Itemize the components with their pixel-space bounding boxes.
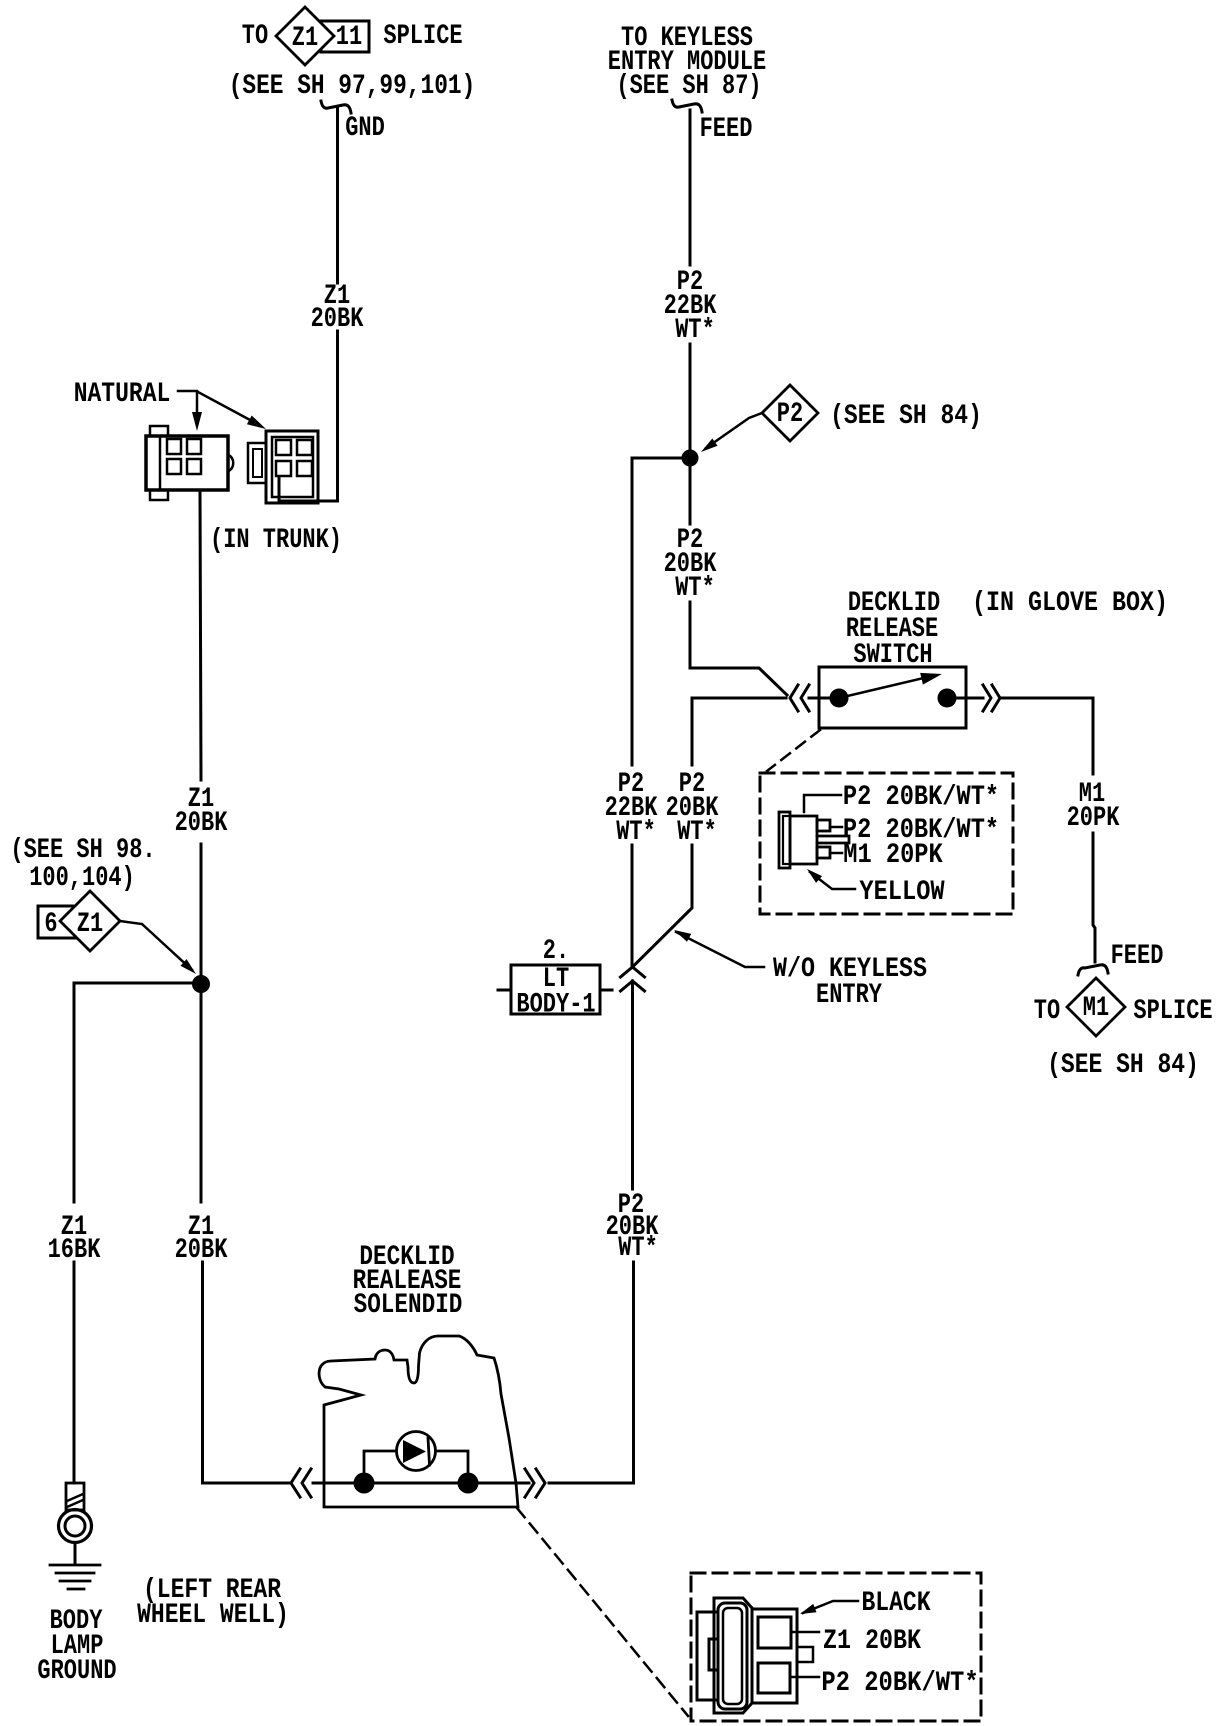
label DECKLID REALEASE SOLENDID bbox=[353, 1240, 463, 1320]
svg-text:NATURAL: NATURAL bbox=[74, 377, 171, 409]
splice ref diamond Z1 bbox=[276, 7, 334, 65]
label M1 20PK pin3 bbox=[843, 838, 943, 870]
solenoid terminal dots bbox=[354, 1473, 479, 1494]
svg-text:6: 6 bbox=[44, 907, 57, 939]
label 11 bbox=[336, 20, 362, 52]
label P2 20BK WT* right col bbox=[666, 767, 719, 847]
svg-text:GROUND: GROUND bbox=[37, 1654, 116, 1686]
connector << solenoid bbox=[291, 1469, 311, 1497]
connector trunk female bbox=[248, 431, 318, 503]
svg-text:WHEEL WELL): WHEEL WELL) bbox=[137, 1598, 289, 1630]
svg-text:P2: P2 bbox=[777, 397, 803, 429]
svg-text:ENTRY: ENTRY bbox=[816, 978, 882, 1010]
svg-text:BODY-1: BODY-1 bbox=[516, 988, 595, 1020]
svg-text:SPLICE: SPLICE bbox=[1133, 994, 1212, 1026]
clip mark M1 feed bbox=[1078, 965, 1108, 975]
svg-text:Z1 20BK: Z1 20BK bbox=[823, 1624, 921, 1656]
label SPLICE (M1) bbox=[1133, 994, 1212, 1026]
component box LT BODY-1 bbox=[498, 965, 612, 1014]
splice ref box 6 bbox=[38, 906, 79, 938]
splice ref diamond Z1 left bbox=[60, 891, 120, 951]
label Z1 20BK lower bbox=[175, 1210, 228, 1265]
label P2 20BK WT* solenoid feed bbox=[606, 1188, 659, 1263]
pin leader 1 bbox=[804, 795, 841, 812]
note TO KEYLESS ENTRY MODULE bbox=[608, 21, 766, 101]
connector >> solenoid bbox=[525, 1469, 545, 1497]
svg-text:20BK: 20BK bbox=[175, 806, 228, 838]
svg-text:100,104): 100,104) bbox=[29, 861, 135, 893]
svg-text:(IN GLOVE BOX): (IN GLOVE BOX) bbox=[972, 586, 1168, 618]
node P2 junction bbox=[682, 450, 699, 467]
ground symbol bbox=[50, 1565, 100, 1589]
svg-text:16BK: 16BK bbox=[48, 1233, 101, 1265]
label 6 bbox=[44, 907, 57, 939]
connector trunk male bbox=[146, 426, 233, 500]
wire Z1 20BK solenoid bbox=[201, 992, 291, 1483]
splice ref box 11 bbox=[321, 21, 369, 52]
label Z1 20BK trunk bbox=[175, 782, 228, 838]
splice ref Z1 leader bbox=[120, 921, 196, 974]
label Z1 (diamond) bbox=[292, 21, 318, 53]
label Z1 20BK gnd wire bbox=[311, 279, 364, 334]
wire switch return bbox=[633, 698, 787, 967]
label P2 20BK WT* switch feed bbox=[664, 523, 717, 603]
svg-text:(SEE SH 97,99,101): (SEE SH 97,99,101) bbox=[229, 69, 476, 101]
switch contact left bbox=[830, 689, 849, 708]
label Z1 (left diamond) bbox=[77, 907, 103, 939]
connector << switch bbox=[790, 685, 809, 711]
label SPLICE bbox=[383, 19, 462, 51]
wire through solenoid bbox=[313, 1482, 529, 1485]
label P2 20BK/WT* pin2 bbox=[843, 813, 999, 845]
svg-text:WT*: WT* bbox=[675, 571, 715, 603]
callout W/O KEYLESS ENTRY bbox=[674, 930, 927, 1011]
svg-text:SOLENDID: SOLENDID bbox=[354, 1288, 463, 1320]
switch connector drawing bbox=[779, 812, 849, 868]
label TO (M1) bbox=[1034, 994, 1060, 1026]
svg-text:GND: GND bbox=[345, 111, 385, 143]
callout YELLOW bbox=[807, 869, 945, 908]
svg-text:SPLICE: SPLICE bbox=[383, 19, 462, 51]
svg-text:WT*: WT* bbox=[675, 313, 715, 345]
diode bypass wire bbox=[364, 1451, 468, 1483]
solenoid outline bbox=[319, 1336, 518, 1507]
connector >> switch bbox=[983, 685, 1000, 711]
switch contact right bbox=[938, 689, 957, 708]
label NATURAL bbox=[74, 377, 171, 409]
natural leader left bbox=[178, 391, 202, 431]
solenoid connector drawing bbox=[697, 1598, 813, 1713]
label GND bbox=[345, 111, 385, 143]
svg-text:FEED: FEED bbox=[700, 112, 753, 144]
detail box switch connector bbox=[760, 773, 1013, 914]
svg-text:20PK: 20PK bbox=[1067, 801, 1120, 833]
wire Z1 20BK gnd bbox=[279, 108, 338, 501]
svg-text:WT*: WT* bbox=[618, 1231, 658, 1263]
svg-text:P2 20BK/WT*: P2 20BK/WT* bbox=[821, 1666, 978, 1698]
svg-text:YELLOW: YELLOW bbox=[859, 875, 944, 907]
wire P2 20BK solenoid feed bbox=[549, 981, 634, 1483]
note IN TRUNK bbox=[210, 523, 342, 555]
svg-text:TO: TO bbox=[242, 19, 268, 51]
wire P2 20BK switch feed bbox=[690, 466, 787, 695]
note IN GLOVE BOX bbox=[972, 586, 1168, 618]
wire P2 22BK feed bbox=[689, 110, 692, 450]
svg-text:FEED: FEED bbox=[1111, 939, 1164, 971]
natural leader right bbox=[198, 392, 266, 429]
dashed leader to switch detail bbox=[767, 730, 820, 771]
wire Z1 20BK trunk bbox=[200, 491, 201, 975]
svg-text:20BK: 20BK bbox=[175, 1233, 228, 1265]
svg-text:Z1: Z1 bbox=[292, 21, 318, 53]
splice ref P2 diamond bbox=[762, 385, 818, 441]
label P2 (diamond) bbox=[777, 397, 803, 429]
pin leader 3 bbox=[830, 852, 842, 855]
wire Z1 16BK bbox=[74, 983, 201, 1483]
pin leader 2 bbox=[830, 826, 842, 829]
inline connector break bbox=[621, 967, 645, 991]
note SEE SH 97,99,101 bbox=[229, 69, 476, 101]
label Z1 16BK bbox=[48, 1210, 101, 1265]
label M1 (diamond) bbox=[1083, 991, 1109, 1023]
label BODY LAMP GROUND bbox=[37, 1604, 116, 1686]
label P2 20BK/WT* pin1 bbox=[843, 780, 999, 812]
wire P2 22BK branch bbox=[632, 458, 682, 966]
svg-text:(SEE SH 84): (SEE SH 84) bbox=[830, 399, 982, 431]
svg-text:11: 11 bbox=[336, 20, 362, 52]
detail box solenoid connector bbox=[691, 1573, 981, 1721]
label TO bbox=[242, 19, 268, 51]
label P2 22BK WT* left col bbox=[605, 767, 658, 847]
label LT BODY-1 bbox=[516, 962, 595, 1020]
callout BLACK bbox=[800, 1586, 931, 1618]
label M1 20PK bbox=[1067, 777, 1120, 833]
clip mark gnd wire bbox=[321, 101, 351, 113]
svg-text:TO: TO bbox=[1034, 994, 1060, 1026]
svg-text:(IN TRUNK): (IN TRUNK) bbox=[210, 523, 342, 555]
svg-text:P2 20BK/WT*: P2 20BK/WT* bbox=[843, 780, 999, 812]
label P2 20BK/WT* pin bbox=[790, 1666, 979, 1698]
svg-text:M1: M1 bbox=[1083, 991, 1109, 1023]
splice ref M1 diamond bbox=[1067, 978, 1125, 1036]
switch arm bbox=[839, 673, 942, 698]
label 2. bbox=[543, 934, 569, 966]
svg-text:(SEE SH 87): (SEE SH 87) bbox=[616, 69, 761, 101]
svg-text:BLACK: BLACK bbox=[862, 1586, 931, 1618]
dashed leader to solenoid detail bbox=[517, 1508, 688, 1716]
svg-text:(SEE SH 84): (SEE SH 84) bbox=[1047, 1048, 1199, 1080]
svg-text:WT*: WT* bbox=[677, 815, 717, 847]
label Z1 20BK pin bbox=[791, 1624, 921, 1656]
splice ref P2 leader bbox=[701, 413, 762, 452]
switch box bbox=[819, 667, 966, 728]
note SEE SH 84 (M1) bbox=[1047, 1048, 1199, 1080]
diode D1 bbox=[397, 1432, 436, 1471]
wire into switch bbox=[809, 697, 841, 700]
wire switch to M1 bbox=[947, 698, 1095, 962]
label FEED (M1) bbox=[1111, 939, 1164, 971]
clip mark feed wire bbox=[672, 100, 702, 112]
label P2 22BK WT* bbox=[664, 265, 717, 345]
svg-text:Z1: Z1 bbox=[77, 907, 103, 939]
ring terminal bbox=[59, 1483, 92, 1564]
note SEE SH 98,100,104 bbox=[10, 833, 155, 893]
note SEE SH 84 (P2) bbox=[830, 399, 982, 431]
label FEED bbox=[700, 112, 753, 144]
note LEFT REAR WHEEL WELL bbox=[137, 1573, 289, 1630]
svg-text:WT*: WT* bbox=[616, 815, 656, 847]
label DECKLID RELEASE SWITCH bbox=[846, 586, 940, 670]
svg-text:20BK: 20BK bbox=[311, 302, 364, 334]
svg-text:M1 20PK: M1 20PK bbox=[843, 838, 943, 870]
node Z1 junction bbox=[192, 975, 210, 993]
